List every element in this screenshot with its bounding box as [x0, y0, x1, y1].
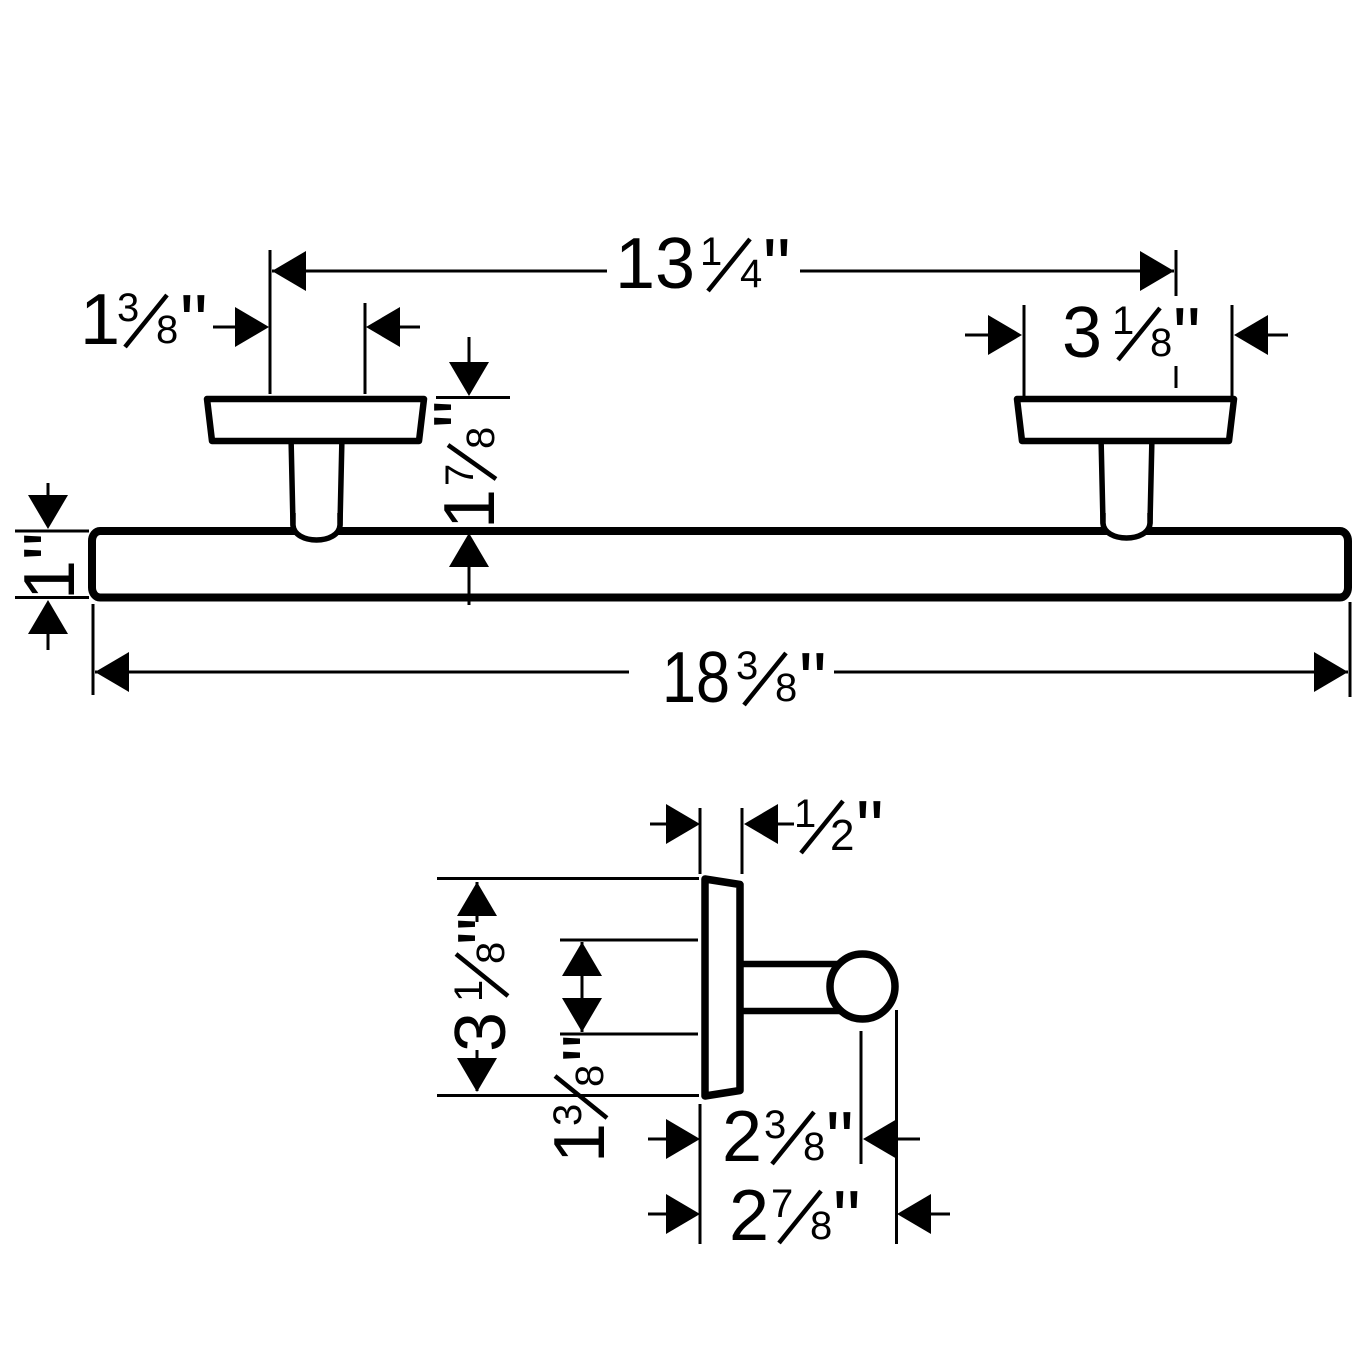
label 3 1/8 side rotated — [441, 917, 529, 1052]
double arrow 1 3/8 side — [581, 942, 584, 1032]
dimension 1 7/8 top tick at flange level — [436, 396, 510, 399]
svg-text:8: 8 — [775, 666, 797, 710]
dimension 3 1/8 side bottom tick — [437, 1094, 699, 1097]
label 2 7/8 — [729, 1174, 861, 1262]
svg-text:1: 1 — [1112, 299, 1134, 343]
extension line 18 3/8 left — [92, 604, 95, 695]
label 1 7/8 rotated — [417, 400, 510, 529]
right post stem — [1101, 436, 1152, 538]
svg-text:8: 8 — [156, 308, 178, 352]
dimension 1 inch tick bottom — [15, 596, 89, 599]
arrow 3 1/8 side up — [476, 882, 479, 922]
svg-text:": " — [417, 400, 505, 428]
left flange plate — [207, 399, 424, 441]
extension line 18 3/8 right — [1349, 602, 1352, 697]
arrow 1 inch up — [47, 632, 50, 650]
label 2 3/8 — [722, 1095, 854, 1183]
arrow 2 7/8 right — [929, 1213, 950, 1216]
bar body — [92, 531, 1348, 598]
dimension 13 1/4 line right segment — [800, 270, 1174, 273]
svg-text:": " — [826, 1095, 854, 1183]
label 1/2 — [794, 784, 884, 872]
label 1 3/8 side rotated — [540, 1034, 634, 1163]
extension line 1/2 right — [741, 808, 744, 874]
dimension 3 1/8 side top tick — [437, 877, 699, 880]
svg-text:7: 7 — [771, 1182, 793, 1226]
right flange plate — [1017, 399, 1234, 441]
svg-text:1: 1 — [700, 230, 722, 274]
arrow 2 7/8 left — [648, 1213, 668, 1216]
extension line right hole (broken) — [1175, 250, 1178, 296]
arrow 1 7/8 down — [468, 337, 471, 365]
arrow 1 7/8 up — [468, 566, 471, 605]
extension line right hole dash — [1175, 366, 1178, 388]
dimension 3 1/8 arrow right — [1266, 334, 1288, 337]
extension line 1/2 left — [699, 808, 702, 874]
label 3 1/8 — [1062, 291, 1201, 379]
left post stem — [291, 436, 342, 540]
label 1 inch rotated — [7, 532, 95, 600]
dimension 13 1/4 line left segment — [272, 270, 607, 273]
arrow 18 3/8 right — [1314, 652, 1348, 692]
dimension 18 3/8 line left segment — [95, 671, 629, 674]
svg-text:": " — [799, 636, 827, 724]
left post stem inner redraw (sides over bar top) — [293, 513, 340, 540]
svg-text:2: 2 — [729, 1176, 769, 1256]
svg-text:3: 3 — [736, 644, 758, 688]
svg-text:1: 1 — [540, 1123, 620, 1163]
svg-text:3: 3 — [441, 1012, 521, 1052]
post arm side view — [740, 964, 860, 1011]
svg-text:3: 3 — [117, 286, 139, 330]
svg-text:1: 1 — [430, 489, 510, 529]
dimension 3 1/8 arrow left — [965, 334, 990, 337]
svg-text:8: 8 — [459, 427, 503, 449]
label 1 3/8 — [80, 278, 208, 366]
extension line left hole — [269, 250, 272, 394]
svg-text:2: 2 — [830, 811, 854, 860]
label 18 3/8 — [662, 636, 827, 724]
dimension 1 3/8 side bottom tick — [560, 1033, 698, 1036]
svg-text:18: 18 — [662, 638, 730, 718]
dimension 1 3/8 side top tick — [560, 939, 698, 942]
arrow 2 3/8 right — [898, 1138, 920, 1141]
extension line plate face bottom — [699, 1104, 702, 1244]
dimension 1 inch tick top — [15, 530, 89, 533]
arrow 1/2 left — [650, 823, 668, 826]
extension line right flange left — [1023, 305, 1026, 396]
svg-text:": " — [546, 1034, 634, 1062]
svg-text:8: 8 — [803, 1125, 825, 1169]
arrow 13 1/4 right — [1140, 251, 1174, 291]
dimension 1 3/8 arrow right — [392, 326, 420, 329]
svg-text:1: 1 — [10, 560, 90, 600]
svg-text:13: 13 — [615, 224, 695, 304]
wall plate side view — [705, 879, 740, 1096]
label 13 1/4 — [615, 222, 791, 310]
svg-text:2: 2 — [722, 1097, 762, 1177]
extension line left hole 2 — [364, 303, 367, 394]
svg-text:": " — [833, 1174, 861, 1262]
extension line right flange right — [1231, 305, 1234, 396]
svg-text:8: 8 — [568, 1065, 612, 1087]
arrow 3 1/8 side down — [476, 1050, 479, 1091]
arrow 2 3/8 left — [648, 1138, 668, 1141]
svg-text:3: 3 — [1062, 293, 1102, 373]
svg-text:": " — [441, 917, 529, 945]
svg-text:8: 8 — [1150, 321, 1172, 365]
arrow 18 3/8 left — [95, 652, 129, 692]
extension line ball right — [895, 1010, 898, 1244]
arrow 1 inch down — [47, 483, 50, 500]
svg-text:1: 1 — [447, 980, 491, 1002]
svg-text:8: 8 — [810, 1204, 832, 1248]
arrow 13 1/4 left — [272, 251, 306, 291]
extension line ball center — [860, 1031, 863, 1164]
svg-text:1: 1 — [794, 792, 816, 836]
svg-text:3: 3 — [546, 1104, 590, 1126]
dimension 18 3/8 line right segment — [834, 671, 1348, 674]
svg-text:": " — [763, 222, 791, 310]
svg-text:4: 4 — [740, 252, 762, 296]
svg-text:": " — [7, 532, 95, 560]
ball end — [830, 954, 895, 1019]
svg-text:1: 1 — [80, 280, 120, 360]
right post stem inner redraw — [1103, 513, 1150, 538]
arrow 1/2 right — [776, 823, 794, 826]
svg-text:": " — [856, 784, 884, 872]
svg-text:": " — [1173, 291, 1201, 379]
svg-text:": " — [180, 278, 208, 366]
dimension 1 3/8 arrow left — [213, 326, 240, 329]
svg-text:3: 3 — [764, 1103, 786, 1147]
